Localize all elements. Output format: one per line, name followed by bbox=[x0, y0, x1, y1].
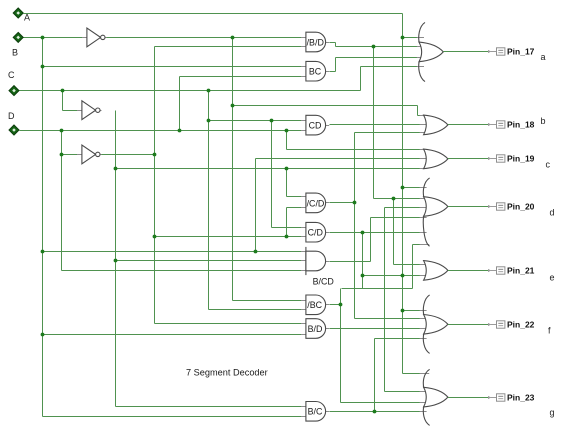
inverter NOT1 (B) bbox=[87, 28, 105, 47]
output connector Pin_17 bbox=[443, 47, 534, 57]
wire: /BC vertical link bbox=[340, 289, 342, 403]
wire: B to OR c vertical bbox=[255, 159, 257, 252]
junction /B branch bbox=[231, 104, 235, 108]
wire: D branch into NOT3 input bbox=[63, 154, 78, 156]
junction D rail / D wire bbox=[60, 129, 64, 133]
wire: D vertical rail bbox=[61, 131, 63, 271]
wire: /D (NOT3 out) bbox=[100, 154, 155, 156]
OR gate segment c bbox=[424, 149, 448, 169]
wire: /D branch to AND /C/D bottom input bbox=[287, 207, 302, 209]
wire: C to AND C/D vertical bbox=[271, 121, 273, 228]
junction /D to C/D bbox=[153, 235, 157, 239]
svg-text:B: B bbox=[12, 48, 18, 58]
junction B to B/D bbox=[41, 333, 45, 337]
wire: C branch to AND CD top input bbox=[209, 120, 302, 122]
junction /C/D branch bbox=[353, 201, 357, 205]
wire: /D branch to AND C/D bottom input bbox=[155, 236, 302, 238]
wire: B branch to AND BC top input bbox=[43, 66, 302, 68]
wire: /B/D output jog bbox=[335, 43, 337, 47]
wire: branch to OR d input 3 bbox=[385, 207, 421, 209]
input port B bbox=[13, 32, 23, 42]
wire: D to BC vertical bbox=[179, 77, 181, 131]
output connector Pin_19 bbox=[448, 154, 535, 164]
wire: /C to OR c input 3 bbox=[116, 168, 421, 170]
junction /C step bbox=[285, 167, 289, 171]
svg-text:A: A bbox=[24, 13, 30, 23]
wire: branch to OR g input 2 bbox=[385, 391, 421, 393]
wire: link vertical to OR d input 6 bbox=[412, 245, 414, 289]
wire: /B/D branch to OR e input 1 bbox=[394, 264, 421, 266]
wire: B branch to AND B/C bottom input bbox=[43, 416, 302, 418]
wire: /BC output bbox=[330, 304, 342, 306]
wire: D branch to AND B/CD input 3 bbox=[62, 270, 302, 272]
svg-text:e: e bbox=[550, 273, 555, 283]
wire: C/D vertical rail bbox=[362, 233, 364, 289]
AND gate C/D bbox=[306, 222, 326, 242]
junction B to BC bbox=[41, 65, 45, 69]
output connector Pin_18 bbox=[448, 120, 535, 130]
wire: /B/D down vertical bbox=[373, 47, 375, 199]
svg-text:f: f bbox=[548, 326, 551, 336]
wire: BC out to OR a input 3 bbox=[336, 57, 418, 59]
gate lead stubs bbox=[301, 37, 306, 39]
svg-text:b: b bbox=[541, 116, 546, 126]
wire: cross link at y=288 bbox=[342, 288, 413, 290]
wire: C to NOT2 vertical bbox=[62, 91, 64, 111]
svg-text:Pin_21: Pin_21 bbox=[507, 266, 535, 276]
wire: /B/D output nub run bbox=[330, 42, 336, 44]
wire: /D up-branch to AND /B/D bottom input bbox=[155, 46, 302, 48]
svg-text:B/C: B/C bbox=[308, 407, 323, 417]
wire: /C/D up-branch to OR b input 3 bbox=[355, 132, 421, 134]
svg-text:CD: CD bbox=[309, 121, 322, 131]
wire: /B (NOT1 out) to AND /B/D top input bbox=[107, 37, 302, 39]
wire: B/C output to OR g input 4 bbox=[330, 411, 421, 413]
svg-text:C/D: C/D bbox=[308, 228, 323, 238]
output connector Pin_23 bbox=[448, 393, 535, 403]
wire: input D horizontal to AND CD bottom input bbox=[20, 130, 302, 132]
output connector Pin_20 bbox=[448, 202, 535, 212]
wire: /C step-down vertical bbox=[286, 169, 288, 197]
svg-text:g: g bbox=[550, 408, 555, 418]
wire: /C/D branch to OR f input 2 bbox=[355, 318, 421, 320]
junction C rail bbox=[207, 89, 211, 93]
svg-text:/BC: /BC bbox=[307, 300, 322, 310]
wire: C up to OR a input 4 vertical bbox=[360, 67, 362, 91]
wire: C branch to AND /BC bottom input bbox=[209, 309, 302, 311]
wire: /B/D out to OR a input 2 bbox=[336, 46, 418, 48]
svg-text:7 Segment Decoder: 7 Segment Decoder bbox=[186, 368, 268, 378]
junction /B rail bbox=[231, 36, 235, 40]
wire: /B/D branch to OR d input 2 bbox=[374, 198, 421, 200]
wire: D branch to OR c input 1 bbox=[287, 149, 421, 151]
AND gate /B/D bbox=[306, 32, 326, 52]
wire: B/C up vertical bbox=[374, 339, 376, 412]
wire: BC output jog bbox=[335, 58, 337, 72]
OR gate segment f bbox=[423, 295, 448, 354]
wire: /D branch to AND B/D top input bbox=[155, 323, 302, 325]
output connector Pin_21 bbox=[448, 266, 535, 276]
input port A bbox=[13, 8, 23, 18]
junction B to B/CD bbox=[41, 250, 45, 254]
input port D bbox=[9, 125, 19, 135]
input port C bbox=[9, 86, 19, 96]
junction /C to B/CD bbox=[114, 259, 118, 263]
AND gate CD bbox=[306, 115, 326, 135]
junction D to NOT3 bbox=[60, 153, 64, 157]
wire: B branch to AND B/CD input 1 bbox=[43, 251, 302, 253]
svg-text:/C/D: /C/D bbox=[307, 198, 325, 208]
svg-text:Pin_22: Pin_22 bbox=[507, 320, 535, 330]
wire: B/D output to OR f input 3 bbox=[330, 328, 421, 330]
svg-text:c: c bbox=[546, 160, 551, 170]
wire: input B to NOT1 bbox=[24, 37, 83, 39]
wire: D step-down vertical bbox=[286, 131, 288, 150]
OR gate segment b bbox=[424, 115, 448, 135]
svg-text:a: a bbox=[541, 52, 546, 62]
junction C to CD bbox=[207, 119, 211, 123]
svg-text:B/D: B/D bbox=[308, 324, 323, 334]
OR gate segment a bbox=[419, 22, 444, 81]
wire: /B vertical rail bbox=[232, 38, 234, 301]
output connector Pin_22 bbox=[448, 320, 535, 330]
wire: BC output nub run bbox=[330, 71, 336, 73]
svg-text:C: C bbox=[8, 70, 15, 80]
junction A to OR d bbox=[401, 186, 405, 190]
junction /C wire bbox=[114, 167, 118, 171]
wire: D up-branch to AND BC bottom input bbox=[180, 76, 302, 78]
wire: C branch to AND C/D top input bbox=[272, 227, 302, 229]
wire: B vertical rail bbox=[42, 38, 44, 417]
wire: B/CD up vertical bbox=[370, 218, 372, 262]
svg-text:/B/D: /B/D bbox=[307, 37, 324, 47]
junction /B/D to OR e bbox=[392, 197, 396, 201]
wire: /D step-up vertical bbox=[286, 208, 288, 237]
svg-text:Pin_19: Pin_19 bbox=[507, 154, 535, 164]
junction D to BC bbox=[178, 129, 182, 133]
OR gate segment d bbox=[423, 178, 448, 246]
AND gate B/CD (3-input) bbox=[306, 247, 334, 286]
wire: CD output to OR b input 2 bbox=[330, 124, 421, 126]
AND gate /C/D bbox=[306, 193, 326, 213]
OR gate segment g bbox=[423, 369, 448, 425]
svg-text:BC: BC bbox=[309, 67, 322, 77]
wire: /BC branch to OR g input 3 bbox=[341, 402, 421, 404]
wire: OR d input3 / OR g input2 vertical bbox=[384, 208, 386, 392]
junction B rail / B wire bbox=[41, 36, 45, 40]
wire: A vertical rail bbox=[402, 14, 404, 374]
wire: branch to OR d input 6 bbox=[413, 244, 422, 246]
wire: A branch to OR a input 1 bbox=[403, 37, 418, 39]
junction at A rail crossing bbox=[401, 274, 405, 278]
junction C to NOT2 bbox=[61, 89, 65, 93]
inverter NOT2 (C) bbox=[82, 101, 100, 120]
wire: /D vertical rail bbox=[154, 47, 156, 324]
junction B/C branch bbox=[373, 410, 377, 414]
wire: /C branch to AND /C/D top input bbox=[287, 196, 302, 198]
AND gate BC bbox=[306, 61, 326, 81]
OR gate segment e bbox=[424, 261, 448, 281]
wire: /B into OR b input 1 bbox=[418, 115, 421, 117]
junction C/D to OR e bbox=[361, 274, 365, 278]
wire: input A horizontal bbox=[24, 13, 403, 15]
wire: C to OR a input 4 bbox=[361, 66, 418, 68]
inverter NOT3 (D) bbox=[82, 145, 100, 164]
wire: C vertical rail bbox=[208, 91, 210, 310]
wire: C/D output to OR d input 5 bbox=[330, 232, 421, 234]
junction B to OR c bbox=[254, 250, 258, 254]
junction C/D branch bbox=[361, 231, 365, 235]
AND gate B/D bbox=[306, 319, 326, 339]
junction /B/D branch bbox=[372, 45, 376, 49]
wire: B/C up-branch to OR f input 4 bbox=[375, 338, 421, 340]
wire: B branch to AND B/D bottom input bbox=[43, 334, 302, 336]
junction A to OR a bbox=[401, 36, 405, 40]
wire: A branch to OR g input 1 bbox=[403, 373, 423, 375]
svg-text:Pin_17: Pin_17 bbox=[507, 47, 535, 57]
junction D step bbox=[285, 129, 289, 133]
svg-text:Pin_20: Pin_20 bbox=[507, 202, 535, 212]
wire: B/CD up-branch to OR d input 4 bbox=[371, 217, 421, 219]
wire: /C branch to AND B/CD input 2 bbox=[116, 260, 302, 262]
wire: /B/D to OR e vertical bbox=[393, 199, 395, 265]
wire: input C horizontal bbox=[20, 90, 361, 92]
wire: B branch to OR c input 2 bbox=[256, 158, 421, 160]
wire: /B jog to OR b vertical bbox=[417, 106, 419, 116]
junction A to OR f bbox=[401, 309, 405, 313]
svg-text:D: D bbox=[8, 111, 15, 121]
wire: A branch to OR d input 1 bbox=[403, 187, 421, 189]
wire: /C/D vertical rail bbox=[354, 133, 356, 319]
wire: C branch into NOT2 input bbox=[63, 110, 78, 112]
AND gate B/C bbox=[306, 402, 326, 422]
wire: C/D branch to OR e input 2 bbox=[363, 275, 421, 277]
wire: A branch to OR f input 1 bbox=[403, 310, 421, 312]
wire: /B branch to AND /BC top input bbox=[233, 300, 302, 302]
AND gate /BC bbox=[306, 295, 326, 315]
svg-text:Pin_18: Pin_18 bbox=[507, 120, 535, 130]
junction /BC branch bbox=[339, 303, 343, 307]
wire: /C/D output bbox=[330, 202, 355, 204]
wire: B/CD output bbox=[330, 261, 371, 263]
wire: /C vertical rail bbox=[115, 111, 117, 407]
svg-text:d: d bbox=[550, 208, 555, 218]
junction /D step bbox=[285, 235, 289, 239]
svg-text:Pin_23: Pin_23 bbox=[507, 393, 535, 403]
junction C to C/D bbox=[270, 119, 274, 123]
wire: /C branch to AND B/C top input bbox=[116, 406, 302, 408]
wire: /B branch toward OR b bbox=[233, 105, 418, 107]
svg-text:B/CD: B/CD bbox=[313, 276, 334, 286]
junction /D rail bbox=[153, 153, 157, 157]
